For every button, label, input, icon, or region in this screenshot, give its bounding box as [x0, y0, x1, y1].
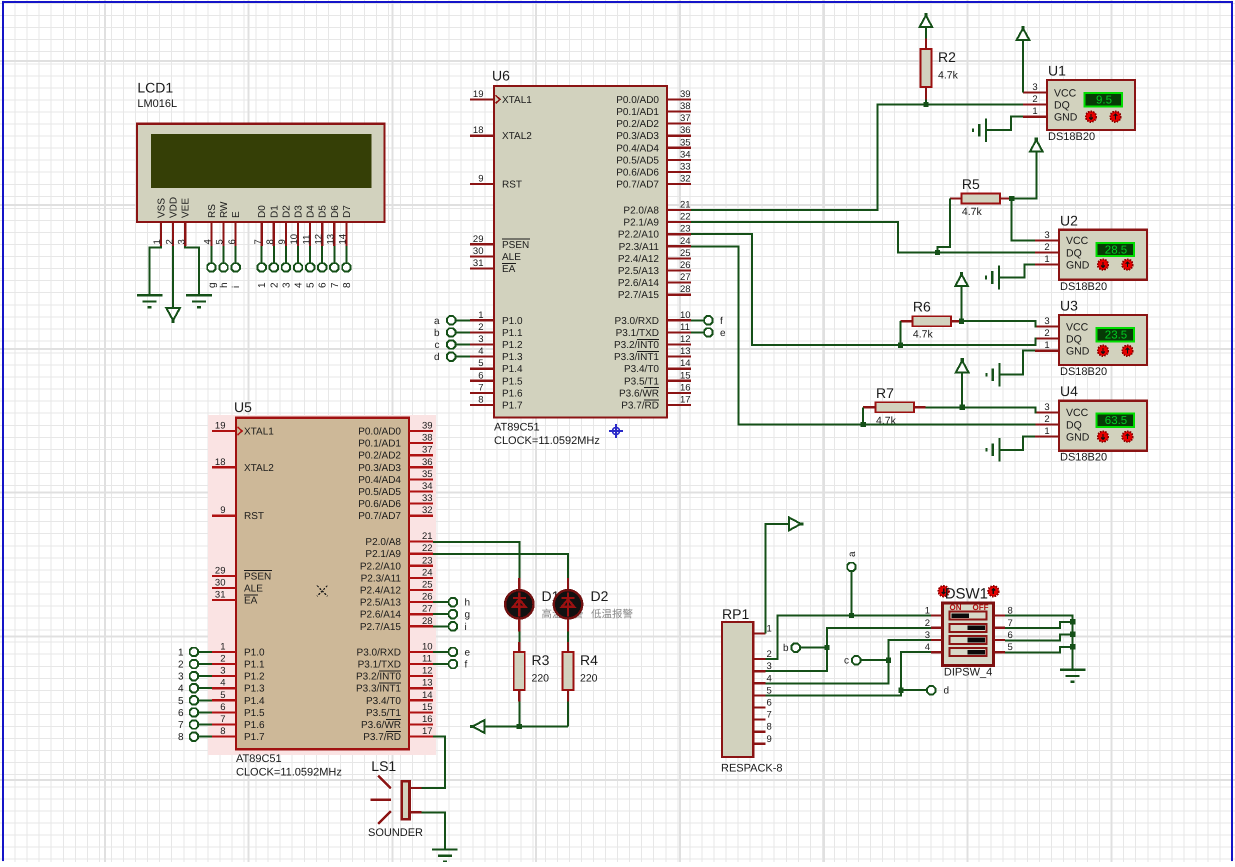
- svg-text:DS18B20: DS18B20: [1060, 452, 1107, 464]
- svg-text:4.7k: 4.7k: [938, 70, 959, 82]
- svg-text:10: 10: [422, 641, 433, 652]
- svg-text:a: a: [434, 316, 440, 327]
- svg-text:4: 4: [294, 282, 305, 288]
- svg-text:P2.2/A10: P2.2/A10: [360, 561, 402, 572]
- svg-text:P1.7: P1.7: [244, 732, 265, 743]
- svg-text:18: 18: [473, 125, 484, 136]
- svg-text:DS18B20: DS18B20: [1048, 131, 1095, 143]
- svg-text:17: 17: [680, 395, 691, 406]
- svg-text:2: 2: [1044, 328, 1049, 339]
- svg-text:38: 38: [680, 101, 691, 112]
- svg-text:6: 6: [220, 702, 225, 713]
- svg-text:39: 39: [422, 421, 433, 432]
- svg-text:33: 33: [422, 493, 433, 504]
- svg-text:35: 35: [680, 137, 691, 148]
- svg-text:EA: EA: [502, 264, 516, 275]
- svg-text:15: 15: [680, 370, 691, 381]
- svg-text:D2: D2: [281, 205, 292, 218]
- svg-text:D3: D3: [294, 205, 305, 218]
- svg-text:5: 5: [220, 690, 225, 701]
- svg-text:P1.3: P1.3: [502, 352, 523, 363]
- svg-text:CLOCK=11.0592MHz: CLOCK=11.0592MHz: [494, 435, 600, 447]
- svg-text:D6: D6: [330, 205, 341, 218]
- svg-text:P0.1/AD1: P0.1/AD1: [358, 439, 401, 450]
- svg-text:39: 39: [680, 89, 691, 100]
- svg-text:3: 3: [281, 282, 292, 288]
- svg-text:P3.2/INT0: P3.2/INT0: [356, 672, 401, 683]
- svg-text:R4: R4: [580, 652, 598, 668]
- svg-text:P0.4/AD4: P0.4/AD4: [616, 143, 659, 154]
- svg-text:P0.3/AD3: P0.3/AD3: [358, 463, 401, 474]
- svg-text:25: 25: [680, 248, 691, 259]
- svg-text:f: f: [720, 316, 723, 327]
- svg-text:U3: U3: [1060, 298, 1078, 314]
- svg-text:e: e: [465, 647, 471, 658]
- svg-text:P2.2/A10: P2.2/A10: [618, 230, 660, 241]
- svg-text:3: 3: [178, 672, 184, 683]
- svg-text:P1.6: P1.6: [244, 720, 265, 731]
- svg-text:h: h: [219, 282, 230, 288]
- svg-text:D0: D0: [257, 205, 268, 218]
- svg-text:PSEN: PSEN: [502, 240, 529, 251]
- svg-text:22: 22: [422, 543, 433, 554]
- svg-text:26: 26: [680, 260, 691, 271]
- svg-text:P1.5: P1.5: [502, 376, 523, 387]
- svg-text:b: b: [783, 643, 789, 654]
- svg-text:220: 220: [532, 673, 550, 685]
- svg-text:2: 2: [1032, 94, 1037, 105]
- svg-text:3: 3: [1044, 316, 1049, 327]
- svg-text:36: 36: [422, 457, 433, 468]
- svg-text:3: 3: [220, 666, 225, 677]
- svg-text:EA: EA: [244, 596, 258, 607]
- svg-text:5: 5: [178, 696, 184, 707]
- svg-text:3: 3: [1032, 82, 1037, 93]
- svg-text:DQ: DQ: [1066, 419, 1082, 431]
- svg-text:i: i: [465, 622, 467, 633]
- svg-text:GND: GND: [1066, 259, 1090, 271]
- svg-text:i: i: [231, 286, 242, 288]
- svg-text:P0.7/AD7: P0.7/AD7: [358, 511, 401, 522]
- svg-text:VCC: VCC: [1066, 407, 1089, 419]
- svg-text:29: 29: [215, 565, 226, 576]
- svg-text:P0.2/AD2: P0.2/AD2: [358, 451, 401, 462]
- svg-text:P2.1/A9: P2.1/A9: [623, 218, 659, 229]
- svg-text:g: g: [207, 282, 218, 288]
- svg-text:220: 220: [580, 673, 598, 685]
- svg-text:P2.3/A11: P2.3/A11: [619, 242, 660, 253]
- svg-text:4: 4: [220, 678, 225, 689]
- svg-text:g: g: [465, 610, 471, 621]
- svg-text:RST: RST: [244, 511, 264, 522]
- svg-text:63.5: 63.5: [1105, 415, 1127, 427]
- svg-text:R5: R5: [962, 176, 980, 192]
- svg-text:P3.6/WR: P3.6/WR: [619, 388, 659, 399]
- svg-text:GND: GND: [1066, 431, 1090, 443]
- svg-text:d: d: [434, 352, 440, 363]
- svg-text:24: 24: [422, 567, 433, 578]
- svg-text:5: 5: [478, 358, 483, 369]
- svg-text:SOUNDER: SOUNDER: [368, 827, 423, 839]
- svg-text:P1.4: P1.4: [244, 696, 265, 707]
- svg-text:16: 16: [422, 714, 433, 725]
- svg-text:P0.0/AD0: P0.0/AD0: [358, 427, 401, 438]
- svg-text:DIPSW_4: DIPSW_4: [944, 667, 992, 679]
- svg-text:P2.7/A15: P2.7/A15: [360, 622, 402, 633]
- svg-text:RW: RW: [219, 201, 230, 218]
- svg-text:4.7k: 4.7k: [962, 206, 983, 218]
- svg-text:3: 3: [478, 334, 483, 345]
- svg-text:13: 13: [680, 346, 691, 357]
- svg-text:2: 2: [220, 654, 225, 665]
- svg-text:P3.3/INT1: P3.3/INT1: [614, 352, 659, 363]
- svg-text:4: 4: [178, 684, 184, 695]
- svg-text:AT89C51: AT89C51: [236, 753, 282, 765]
- svg-text:7: 7: [178, 720, 184, 731]
- svg-text:33: 33: [680, 162, 691, 173]
- svg-text:DS18B20: DS18B20: [1060, 366, 1107, 378]
- svg-text:D1: D1: [269, 205, 280, 218]
- svg-text:2: 2: [269, 282, 280, 288]
- svg-text:P0.1/AD1: P0.1/AD1: [616, 107, 659, 118]
- svg-text:14: 14: [422, 690, 433, 701]
- svg-text:30: 30: [473, 246, 484, 257]
- svg-text:XTAL2: XTAL2: [502, 131, 532, 142]
- svg-text:b: b: [434, 328, 440, 339]
- svg-text:P3.7/RD: P3.7/RD: [621, 401, 659, 412]
- svg-text:19: 19: [473, 89, 484, 100]
- svg-text:U2: U2: [1060, 212, 1078, 228]
- svg-text:LS1: LS1: [371, 758, 396, 774]
- svg-text:P2.0/A8: P2.0/A8: [623, 206, 659, 217]
- svg-text:U1: U1: [1048, 63, 1066, 79]
- svg-text:2: 2: [1044, 414, 1049, 425]
- svg-text:9: 9: [277, 239, 288, 244]
- svg-text:14: 14: [338, 234, 349, 245]
- svg-text:ALE: ALE: [244, 584, 263, 595]
- svg-text:2: 2: [1044, 242, 1049, 253]
- svg-text:P1.5: P1.5: [244, 708, 265, 719]
- svg-text:27: 27: [422, 604, 433, 615]
- svg-text:XTAL2: XTAL2: [244, 463, 274, 474]
- svg-text:c: c: [435, 340, 440, 351]
- svg-text:DQ: DQ: [1054, 99, 1070, 111]
- svg-text:LM016L: LM016L: [137, 98, 177, 110]
- svg-text:P2.7/A15: P2.7/A15: [618, 290, 660, 301]
- svg-text:6: 6: [478, 370, 483, 381]
- svg-text:7: 7: [220, 714, 225, 725]
- svg-text:1: 1: [178, 647, 184, 658]
- svg-text:23.5: 23.5: [1105, 330, 1127, 342]
- svg-text:VCC: VCC: [1066, 235, 1089, 247]
- svg-text:5: 5: [215, 239, 226, 244]
- svg-text:P2.6/A14: P2.6/A14: [618, 278, 660, 289]
- svg-text:P3.4/T0: P3.4/T0: [366, 696, 401, 707]
- svg-text:CLOCK=11.0592MHz: CLOCK=11.0592MHz: [236, 767, 342, 779]
- svg-text:29: 29: [473, 234, 484, 245]
- svg-text:U4: U4: [1060, 383, 1078, 399]
- svg-text:a: a: [847, 551, 858, 557]
- svg-text:9.5: 9.5: [1096, 95, 1112, 107]
- svg-text:9: 9: [767, 734, 772, 745]
- svg-text:31: 31: [473, 258, 484, 269]
- svg-text:P2.1/A9: P2.1/A9: [365, 549, 401, 560]
- svg-text:P2.6/A14: P2.6/A14: [360, 610, 402, 621]
- svg-text:6: 6: [227, 239, 238, 244]
- svg-text:3: 3: [176, 239, 187, 244]
- svg-text:P2.0/A8: P2.0/A8: [365, 537, 401, 548]
- svg-text:P0.5/AD5: P0.5/AD5: [616, 155, 659, 166]
- svg-text:23: 23: [680, 224, 691, 235]
- svg-text:E: E: [231, 211, 242, 218]
- svg-text:P1.2: P1.2: [502, 340, 523, 351]
- svg-text:34: 34: [680, 149, 691, 160]
- svg-text:U6: U6: [492, 68, 510, 84]
- svg-text:P2.5/A13: P2.5/A13: [360, 598, 402, 609]
- svg-text:38: 38: [422, 433, 433, 444]
- svg-text:P1.0: P1.0: [502, 316, 523, 327]
- svg-text:1: 1: [1032, 106, 1037, 117]
- svg-text:P2.4/A12: P2.4/A12: [618, 254, 660, 265]
- svg-text:1: 1: [1044, 254, 1049, 265]
- svg-text:11: 11: [301, 235, 312, 245]
- svg-text:6: 6: [178, 708, 184, 719]
- svg-text:P1.7: P1.7: [502, 401, 523, 412]
- svg-text:4: 4: [478, 346, 483, 357]
- svg-text:GND: GND: [1054, 112, 1078, 124]
- svg-text:9: 9: [478, 174, 483, 185]
- svg-text:11: 11: [422, 654, 432, 665]
- svg-text:P2.5/A13: P2.5/A13: [618, 266, 660, 277]
- svg-text:P3.5/T1: P3.5/T1: [624, 376, 659, 387]
- svg-text:VSS: VSS: [157, 198, 168, 218]
- svg-text:P3.5/T1: P3.5/T1: [366, 708, 401, 719]
- svg-text:P0.0/AD0: P0.0/AD0: [616, 95, 659, 106]
- svg-text:VDD: VDD: [169, 197, 180, 218]
- svg-text:7: 7: [767, 710, 772, 721]
- svg-text:26: 26: [422, 592, 433, 603]
- svg-text:4: 4: [203, 239, 214, 244]
- svg-text:8: 8: [220, 726, 225, 737]
- svg-text:2: 2: [164, 239, 175, 244]
- svg-text:R7: R7: [876, 385, 894, 401]
- svg-text:14: 14: [680, 358, 691, 369]
- svg-text:h: h: [465, 598, 471, 609]
- svg-text:1: 1: [767, 623, 772, 634]
- svg-text:P2.4/A12: P2.4/A12: [360, 586, 402, 597]
- svg-text:15: 15: [422, 702, 433, 713]
- svg-text:RS: RS: [207, 204, 218, 218]
- svg-text:RP1: RP1: [722, 606, 749, 622]
- svg-text:7: 7: [478, 382, 483, 393]
- svg-text:31: 31: [215, 590, 226, 601]
- svg-text:DS18B20: DS18B20: [1060, 281, 1107, 293]
- svg-text:16: 16: [680, 382, 691, 393]
- svg-text:RST: RST: [502, 180, 522, 191]
- svg-text:DQ: DQ: [1066, 247, 1082, 259]
- svg-text:D7: D7: [342, 205, 353, 218]
- svg-text:25: 25: [422, 580, 433, 591]
- svg-text:1: 1: [478, 310, 483, 321]
- svg-text:P1.1: P1.1: [502, 328, 523, 339]
- svg-text:24: 24: [680, 236, 691, 247]
- svg-text:28: 28: [680, 284, 691, 295]
- svg-text:32: 32: [422, 505, 433, 516]
- svg-text:XTAL1: XTAL1: [502, 95, 532, 106]
- svg-text:8: 8: [478, 395, 483, 406]
- svg-text:GND: GND: [1066, 346, 1090, 358]
- svg-text:2: 2: [178, 660, 184, 671]
- svg-text:P3.3/INT1: P3.3/INT1: [356, 684, 401, 695]
- svg-text:VCC: VCC: [1066, 321, 1089, 333]
- svg-text:c: c: [844, 656, 849, 667]
- svg-text:低温报警: 低温报警: [591, 609, 633, 621]
- svg-text:1: 1: [152, 239, 163, 244]
- svg-text:11: 11: [680, 322, 690, 333]
- svg-text:12: 12: [313, 234, 324, 245]
- svg-text:28: 28: [422, 616, 433, 627]
- svg-text:27: 27: [680, 272, 691, 283]
- svg-text:5: 5: [306, 282, 317, 288]
- svg-text:1: 1: [257, 282, 268, 288]
- svg-text:P1.3: P1.3: [244, 684, 265, 695]
- svg-text:7: 7: [330, 282, 341, 288]
- svg-text:3: 3: [1044, 402, 1049, 413]
- svg-text:P0.7/AD7: P0.7/AD7: [616, 180, 659, 191]
- svg-text:VEE: VEE: [181, 198, 192, 218]
- svg-text:DQ: DQ: [1066, 333, 1082, 345]
- svg-text:12: 12: [680, 334, 691, 345]
- svg-text:P0.4/AD4: P0.4/AD4: [358, 475, 401, 486]
- svg-text:P3.0/RXD: P3.0/RXD: [357, 647, 401, 658]
- svg-text:P1.2: P1.2: [244, 672, 265, 683]
- svg-text:13: 13: [422, 678, 433, 689]
- svg-text:P3.0/RXD: P3.0/RXD: [615, 316, 659, 327]
- svg-text:21: 21: [422, 531, 433, 542]
- svg-text:8: 8: [342, 282, 353, 288]
- svg-text:U5: U5: [234, 399, 252, 415]
- svg-text:D4: D4: [306, 205, 317, 218]
- svg-text:P0.6/AD6: P0.6/AD6: [616, 168, 659, 179]
- svg-text:2: 2: [478, 322, 483, 333]
- svg-text:32: 32: [680, 174, 691, 185]
- svg-text:1: 1: [220, 641, 225, 652]
- svg-text:P3.2/INT0: P3.2/INT0: [614, 340, 659, 351]
- svg-text:37: 37: [680, 113, 691, 124]
- svg-text:34: 34: [422, 481, 433, 492]
- svg-text:21: 21: [680, 200, 691, 211]
- svg-text:P3.1/TXD: P3.1/TXD: [358, 660, 401, 671]
- svg-text:P0.6/AD6: P0.6/AD6: [358, 499, 401, 510]
- svg-text:35: 35: [422, 469, 433, 480]
- svg-text:P1.1: P1.1: [244, 660, 265, 671]
- svg-text:4.7k: 4.7k: [913, 329, 934, 341]
- svg-text:7: 7: [253, 239, 264, 244]
- svg-text:6: 6: [767, 698, 772, 709]
- svg-text:P0.3/AD3: P0.3/AD3: [616, 131, 659, 142]
- svg-text:9: 9: [220, 505, 225, 516]
- svg-text:19: 19: [215, 421, 226, 432]
- svg-text:13: 13: [326, 234, 337, 245]
- svg-text:XTAL1: XTAL1: [244, 427, 274, 438]
- svg-text:R6: R6: [913, 299, 931, 315]
- svg-text:8: 8: [178, 732, 184, 743]
- svg-text:1: 1: [1044, 340, 1049, 351]
- svg-text:P0.2/AD2: P0.2/AD2: [616, 119, 659, 130]
- svg-text:1: 1: [1044, 426, 1049, 437]
- svg-text:ALE: ALE: [502, 252, 521, 263]
- svg-text:P3.4/T0: P3.4/T0: [624, 364, 659, 375]
- svg-text:LCD1: LCD1: [137, 80, 173, 96]
- svg-text:17: 17: [422, 726, 433, 737]
- svg-text:10: 10: [289, 234, 300, 245]
- svg-text:f: f: [465, 660, 468, 671]
- svg-text:DSW1: DSW1: [945, 586, 988, 603]
- svg-text:8: 8: [767, 722, 772, 733]
- svg-text:18: 18: [215, 457, 226, 468]
- svg-text:P3.7/RD: P3.7/RD: [363, 732, 401, 743]
- svg-text:36: 36: [680, 125, 691, 136]
- svg-text:3: 3: [1044, 230, 1049, 241]
- svg-text:PSEN: PSEN: [244, 571, 271, 582]
- svg-text:D5: D5: [318, 205, 329, 218]
- svg-text:P1.6: P1.6: [502, 388, 523, 399]
- svg-text:P2.3/A11: P2.3/A11: [361, 573, 402, 584]
- svg-text:D2: D2: [591, 588, 609, 604]
- svg-text:37: 37: [422, 445, 433, 456]
- svg-text:23: 23: [422, 555, 433, 566]
- svg-text:10: 10: [680, 310, 691, 321]
- svg-text:P1.0: P1.0: [244, 647, 265, 658]
- svg-text:AT89C51: AT89C51: [494, 421, 540, 433]
- svg-text:P3.6/WR: P3.6/WR: [361, 720, 401, 731]
- svg-text:P1.4: P1.4: [502, 364, 523, 375]
- svg-text:P3.1/TXD: P3.1/TXD: [616, 328, 659, 339]
- svg-text:28.5: 28.5: [1105, 244, 1127, 256]
- svg-text:30: 30: [215, 578, 226, 589]
- svg-text:VCC: VCC: [1054, 87, 1077, 99]
- svg-text:RESPACK-8: RESPACK-8: [721, 763, 783, 775]
- svg-text:8: 8: [265, 239, 276, 244]
- svg-text:12: 12: [422, 666, 433, 677]
- svg-text:e: e: [720, 328, 726, 339]
- svg-text:d: d: [944, 686, 950, 697]
- svg-text:R2: R2: [938, 49, 956, 65]
- svg-text:22: 22: [680, 212, 691, 223]
- svg-text:P0.5/AD5: P0.5/AD5: [358, 487, 401, 498]
- svg-text:R3: R3: [532, 652, 550, 668]
- svg-text:6: 6: [318, 282, 329, 288]
